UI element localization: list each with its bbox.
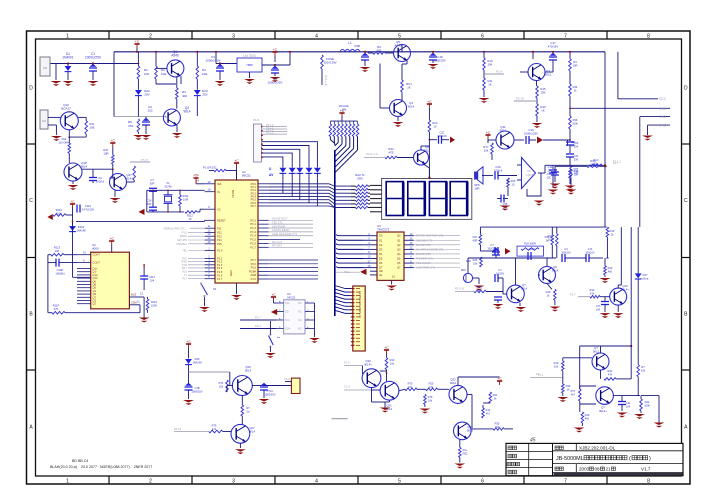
wire [545,71,553,73]
svg-text:10K: 10K [144,72,149,76]
svg-text:P2.?: P2.? [570,293,576,297]
pin 10 [392,275,395,279]
svg-text:2003: 2003 [579,466,590,471]
wire [241,396,243,406]
svg-text:1: 1 [66,479,69,485]
polarity arrow [360,269,366,275]
wire [554,300,556,305]
left bus wire [47,255,49,313]
svg-text:RA1: RA1 [607,369,613,373]
svg-text:90L4+: 90L4+ [125,177,133,181]
svg-text:10E: 10E [90,126,95,130]
wire [604,258,606,266]
svg-text:90L4: 90L4 [183,110,190,114]
label [277,336,281,340]
capacitor C2C [439,136,442,144]
microphone MIC [463,273,472,282]
U3 output net labels [410,232,460,270]
wire [417,388,426,390]
resistor R12 4k7 [482,408,485,418]
net label [266,128,274,132]
svg-text:90L2: 90L2 [593,350,600,354]
svg-text:R13: R13 [590,288,595,292]
svg-text:4k7: 4k7 [571,393,576,397]
svg-text:1K: 1K [407,86,411,90]
svg-text:P1.8 R13C: P1.8 R13C [203,166,217,170]
label R70 [408,382,413,390]
svg-text:89C51: 89C51 [231,190,235,198]
transistor Q6 9012 [414,150,429,165]
svg-text:P?.1: P?.1 [538,373,544,377]
wire base Q40 [563,357,592,359]
ground [500,206,511,211]
wire [569,145,571,153]
net label [570,293,576,297]
wire [547,284,552,290]
ground [270,77,281,82]
junction [155,51,157,53]
wire [483,402,490,404]
junction [152,190,154,192]
wire [200,208,205,210]
resistor R13 10k [556,234,559,246]
wire [69,136,86,138]
svg-text:104: 104 [574,145,579,149]
svg-text:74HC573: 74HC573 [377,228,390,232]
label C14 [548,165,553,173]
svg-text:AGB: AGB [251,273,257,277]
net wire [530,377,563,379]
zone tick marks [109,31,607,484]
svg-text:PC.0: PC.0 [250,218,256,222]
diode [135,90,142,96]
wire [59,262,77,264]
wire [114,63,138,65]
wire [401,64,403,80]
svg-text:7: 7 [279,310,281,313]
svg-text:S1: S1 [213,287,217,291]
ground [548,190,559,195]
label C21 [574,154,579,162]
svg-text:90L4+: 90L4+ [599,409,607,413]
svg-text:+C: +C [273,48,278,52]
svg-text:47E: 47E [128,124,133,128]
svg-text:R2C: R2C [432,121,437,125]
wire [471,428,493,430]
wire [565,257,586,259]
wire [379,64,381,109]
wire [397,157,414,159]
wire [604,297,606,302]
label R46 [566,384,571,392]
label R11C [56,208,63,216]
capacitor C14 [551,172,559,175]
svg-text:C25: C25 [503,202,508,206]
ground [244,79,255,84]
resistor R4B 400 [133,166,136,180]
wire [604,226,606,228]
wire [262,153,292,165]
svg-text:1K: 1K [541,109,545,113]
net wire [130,161,150,163]
label Q5 [394,40,401,48]
svg-text:RAC: RAC [590,159,596,163]
svg-text:7: 7 [564,479,567,485]
ground [566,190,577,195]
connector CN3 [353,286,365,351]
label Q1P [81,161,88,169]
svg-text:VCC: VCC [659,97,667,101]
svg-text:100: 100 [495,425,500,429]
svg-text:90L4: 90L4 [81,165,88,169]
resistor R46 1k [562,384,565,393]
svg-text:D3: D3 [379,247,383,251]
ground [139,318,150,323]
pin number 10 [83,251,86,255]
label R3 [573,60,578,68]
resistor R1b [459,447,462,457]
label Q? [599,406,607,414]
wire [216,63,237,65]
svg-text:XL: XL [217,190,221,194]
label C11 [626,401,631,409]
svg-text:KEY-PW: KEY-PW [177,238,188,242]
wire [580,403,596,405]
wire [204,297,206,306]
svg-text:OE: OE [379,269,383,273]
net label P2.0-11 [455,287,465,291]
ground [557,397,568,402]
label C117 [149,275,156,283]
capacitor C17 [549,53,557,60]
wire [401,92,403,100]
label R2C [432,121,437,129]
connector CZ2 [40,110,48,129]
wire display vcc [428,132,430,179]
fuse FUSE [321,55,324,69]
svg-text:D2: D2 [379,243,383,247]
wire [67,64,69,67]
ground [110,198,121,203]
wire [179,206,181,212]
U1 vertical text [229,190,235,277]
resistor R21 [85,121,88,134]
wire [72,210,74,225]
transistor Q26 [232,376,252,396]
wire [282,185,284,193]
parts list note [50,459,152,469]
wire [145,125,147,134]
svg-text:9: 9 [83,259,85,263]
wire [532,52,534,59]
wire [68,153,70,163]
label C10P [55,268,64,276]
pin number 11 [137,300,140,304]
wire [580,385,596,387]
wire [562,358,564,361]
label R74 [219,381,224,389]
wire [143,279,145,290]
label R19 [545,235,550,243]
pin C0M [131,301,136,305]
svg-text:LE: LE [379,273,382,277]
U2 pin names [93,253,101,306]
label R9 [377,45,382,53]
label R19 [546,290,551,298]
label C24 [547,172,552,180]
wire XL net [147,189,205,191]
svg-text:Q5: Q5 [397,257,401,261]
label RA1 [607,369,613,377]
wire [282,165,284,168]
wire [48,254,51,256]
resistor R10c 10k [385,358,388,370]
svg-text:ADM RECEIVE CTL: ADM RECEIVE CTL [272,232,298,236]
svg-text:104: 104 [626,405,631,409]
wire [556,227,558,234]
svg-text:45: 45 [530,438,536,444]
ground [515,307,526,312]
svg-text:100k: 100k [644,404,650,408]
power +C [234,159,239,167]
wire [386,354,388,358]
wire [351,196,356,198]
svg-text:JB-5000ML: JB-5000ML [556,456,584,462]
ground [235,449,246,454]
wire [442,139,450,141]
wire [471,410,473,428]
LED D5 [306,168,313,174]
junction [604,164,606,166]
label C9 [96,176,105,184]
power +C [384,346,389,354]
wire [483,52,485,58]
svg-text:4: 4 [307,327,309,330]
U1 bottom-right wires [269,260,318,279]
resistor R11P [52,311,65,314]
wire [630,270,632,346]
power +C [497,377,502,385]
border frame inner [36,39,682,476]
svg-text:R113: R113 [54,246,61,250]
svg-text:4k0: 4k0 [608,270,613,274]
P0 bus wires [269,184,351,208]
wire [600,370,602,379]
capacitor C16 30P [149,207,157,210]
label Q? [593,346,600,354]
wire [459,440,461,448]
wire [165,116,167,119]
resistor R19b 1k [554,289,557,300]
resistor RC1 1K [401,80,404,92]
junction [112,168,114,170]
ground [88,81,99,86]
label R26 [511,179,516,187]
wire [604,275,606,277]
resistor R111 10M [179,195,182,206]
connector P1.8 [254,124,262,162]
segment resistor 6 [355,203,368,206]
svg-text:P0.7: P0.7 [251,258,257,262]
wire [384,402,386,408]
wire [188,348,190,359]
transistor Q10 90L4 [610,288,627,305]
label 10E [202,72,207,76]
ground [265,353,276,358]
wire [143,297,145,313]
CN3 pins [351,289,360,346]
wire [529,139,536,141]
svg-text:30P: 30P [150,182,155,186]
label C13 [585,248,595,255]
transistor Q9 90L4 [539,267,556,284]
wire [274,56,276,62]
svg-text:100K: 100K [56,212,62,216]
net label P.1 [538,373,544,377]
svg-text:12: 12 [208,228,211,232]
svg-text:10R: 10R [573,64,578,68]
connector CZ1 [40,57,50,76]
label C4 [561,248,571,255]
wire [66,214,73,216]
svg-text:SCL: SCL [285,301,291,305]
wire [488,139,496,141]
svg-text:1000/25V: 1000/25V [434,59,446,63]
svg-text:+C: +C [427,100,432,104]
wire [209,170,214,172]
audio out wire [545,164,605,166]
svg-text:R1P: R1P [609,229,614,233]
svg-text:V1.7: V1.7 [641,466,651,471]
wire [554,166,556,172]
svg-text:B: B [684,312,688,318]
svg-text:4: 4 [315,479,318,485]
junction [605,165,607,167]
wire [569,157,571,166]
svg-text:11: 11 [208,224,211,228]
label R38 [574,169,579,177]
svg-text:10C: 10C [548,169,553,173]
resistor network RP1 r5 [345,124,348,137]
wire [329,121,331,124]
ground [183,400,194,405]
wire [262,149,300,165]
svg-text:R40: R40 [585,413,590,417]
svg-text:+C: +C [384,346,389,350]
transistor Q10 BCA17 [60,112,78,130]
wire [389,400,391,402]
label 400 [182,94,187,98]
label R11 [488,79,493,87]
capacitor [89,64,97,71]
svg-text:D4: D4 [379,252,383,256]
wire [617,305,619,312]
svg-text:08: 08 [595,466,601,471]
svg-text:==: == [277,336,281,340]
svg-text:47k: 47k [590,292,595,296]
svg-text:P2.1.3: P2.1.3 [266,131,274,135]
U4 pins [276,303,315,329]
svg-text:+5: +5 [196,179,200,183]
wire [480,250,495,252]
svg-text:10E: 10E [161,72,166,76]
label +5 [196,179,200,183]
wire [174,431,209,433]
svg-text:1: 1 [66,34,69,40]
wire [147,297,149,299]
wire [486,291,503,293]
ground [215,81,226,86]
LED D6 [314,168,321,174]
svg-text:W-A-L-B: W-A-L-B [324,75,328,86]
wire [188,365,190,386]
svg-text:PC.7: PC.7 [250,245,256,249]
svg-text:L1: L1 [348,41,352,45]
svg-text:5: 5 [398,34,401,40]
svg-text:1000U/25V: 1000U/25V [85,56,102,60]
wire [65,312,140,314]
wire [371,388,373,402]
svg-text:0.47U/10V: 0.47U/10V [82,208,95,212]
svg-text:MIC: MIC [461,268,466,272]
label C17 [596,305,601,312]
svg-text:R02: R02 [463,452,468,456]
power +C [109,237,114,245]
wire [459,457,461,462]
svg-text:110 OHM: 110 OHM [59,141,70,145]
svg-text:D: D [29,86,33,92]
label R3A [476,285,481,293]
resistor [176,88,179,99]
wire [110,177,113,179]
label C22 [571,140,576,148]
wire LE [370,274,377,276]
svg-text:8: 8 [279,301,281,304]
resistor R10b 4k0 [604,266,607,275]
label R17 [473,235,478,243]
wire [262,146,309,166]
svg-text:R14: R14 [473,258,478,262]
segment resistor 5 [355,199,368,202]
wire [64,254,77,256]
svg-text:+C: +C [70,200,75,204]
wire [344,365,362,367]
transistor Q4 90L4 [390,100,407,117]
junction [364,51,366,53]
wire [269,330,271,335]
label C3 [205,55,220,63]
svg-text:BD BB C4: BD BB C4 [72,459,88,463]
junction [569,51,571,53]
svg-text:R22: R22 [62,137,67,141]
diode [194,90,201,96]
svg-text:C?1C: C?1C [267,389,274,393]
wire [262,142,317,165]
resistor R15 10K [536,86,539,98]
power +5V [193,173,200,183]
svg-text:P14: P14 [217,238,222,242]
wire [68,130,70,137]
wire [240,328,276,330]
svg-text:Q3: Q3 [397,247,401,251]
capacitor C24 [549,170,557,173]
svg-text:C21C: C21C [529,247,536,251]
wire [637,340,639,365]
wire [658,396,660,423]
switch S1 [200,282,208,297]
resistor R13C [214,169,226,172]
wire [167,190,169,195]
